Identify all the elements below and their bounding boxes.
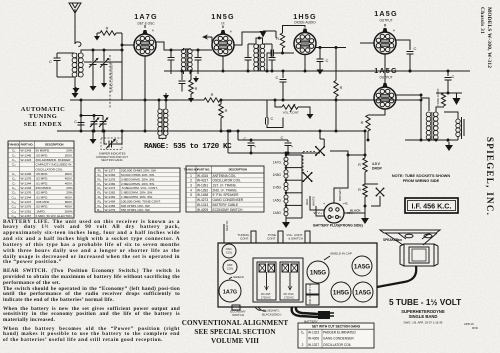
battery new paragraph	[3, 307, 180, 325]
capacitor C2	[78, 123, 85, 126]
svg-text:GANG CONDENSER: GANG CONDENSER	[213, 198, 244, 202]
svg-text:W-1345: W-1345	[21, 153, 32, 157]
svg-text:C₁: C₁	[12, 149, 15, 153]
svg-text:W-1373: W-1373	[105, 186, 116, 190]
tube V2 1N5G	[212, 34, 234, 56]
wire switch to filament bus	[320, 131, 324, 147]
wire V5 bottom to R8	[368, 109, 385, 115]
tone control R8b	[436, 92, 462, 94]
svg-text:PART NO.: PART NO.	[21, 143, 34, 147]
svg-text:W-4273: W-4273	[197, 198, 208, 202]
svg-text:20%: 20%	[66, 149, 72, 153]
antenna	[69, 3, 81, 13]
battery cable	[292, 307, 318, 317]
svg-text:C₁₄: C₁₄	[11, 214, 16, 218]
svg-text:C₁₁: C₁₁	[12, 200, 16, 204]
speaker voice coil	[456, 119, 460, 123]
svg-text:1ST. I.F. TRANS.: 1ST. I.F. TRANS.	[213, 184, 237, 188]
vertical wire x81	[80, 100, 82, 131]
svg-text:.05 MFD.: .05 MFD.	[36, 153, 49, 157]
ground at R1 left	[97, 32, 100, 34]
oscillator coil T2	[158, 109, 162, 113]
resistor R1	[100, 31, 116, 35]
volume control shaft	[305, 231, 310, 243]
wire V4 top cap	[384, 24, 386, 27]
svg-text:BATTERY CABLE: BATTERY CABLE	[213, 203, 239, 207]
wire R1 to grid line	[116, 33, 122, 100]
battery life paragraph	[3, 220, 180, 267]
svg-text:W-1376: W-1376	[21, 191, 32, 195]
gang trimmer capacitor C(ant)	[92, 50, 94, 61]
wire V1 top cap	[144, 25, 146, 28]
svg-text:ECONOMY SWITCH: ECONOMY SWITCH	[213, 208, 244, 212]
ground stub below cap	[195, 76, 197, 78]
speaker flange	[380, 230, 440, 233]
volume control arrow	[290, 104, 295, 112]
antenna coil T1	[72, 53, 77, 58]
capacitor across 1st IF primary	[170, 50, 172, 57]
ground below oscillator	[162, 138, 164, 139]
svg-text:R₁₀: R₁₀	[97, 208, 102, 212]
wire osc coil bottom	[159, 135, 166, 138]
svg-text:400V.: 400V.	[65, 205, 73, 209]
svg-text:400V.: 400V.	[65, 195, 73, 199]
svg-text:TRANS NO.: TRANS NO.	[184, 168, 199, 172]
label conventional alignment	[180, 319, 290, 347]
IF transformer cans	[306, 284, 319, 294]
svg-text:W-1343: W-1343	[21, 186, 32, 190]
svg-text:W-1392: W-1392	[197, 188, 208, 192]
svg-text:5" P.M. SPEAKER: 5" P.M. SPEAKER	[213, 193, 240, 197]
svg-text:DESCRIPTION: DESCRIPTION	[45, 143, 63, 147]
gang condenser in chassis	[253, 258, 303, 302]
rear switch paragraph	[3, 269, 180, 287]
svg-text:W-1382: W-1382	[105, 182, 116, 186]
bus wire y131	[57, 130, 365, 132]
capacitor right of 2nd IF	[271, 44, 273, 57]
economy paragraph	[3, 287, 180, 305]
gang condenser dashed link label	[109, 55, 111, 108]
parts table resistors R1-R10	[95, 168, 180, 212]
label automatic tuning	[19, 106, 67, 130]
svg-text:CAPACITY INCLUDED IN: CAPACITY INCLUDED IN	[36, 163, 72, 167]
wire R5 bottom to diode	[283, 48, 295, 53]
svg-text:250 MMFD.: 250 MMFD.	[36, 186, 52, 190]
svg-text:1 MEGOHM. 20% .5W.: 1 MEGOHM. 20% .5W.	[121, 191, 153, 195]
svg-text:W-1343: W-1343	[21, 149, 32, 153]
antenna leads	[255, 307, 261, 310]
svg-text:.02 MFD.: .02 MFD.	[36, 205, 49, 209]
capacitor C11	[396, 40, 410, 50]
svg-text:.02 MFD.: .02 MFD.	[36, 177, 49, 181]
svg-text:C₁₂: C₁₂	[12, 205, 17, 209]
svg-text:5: 5	[190, 193, 192, 197]
svg-text:600V.: 600V.	[65, 200, 73, 204]
svg-text:20%: 20%	[66, 186, 72, 190]
svg-text:200,000 OHMS 20% .5W.: 200,000 OHMS 20% .5W.	[121, 169, 157, 173]
wire V4 grid left	[360, 42, 374, 44]
tube V3 location 1H5G	[331, 282, 351, 302]
tube V4 location 1A5G	[352, 256, 372, 276]
wire V5 plate to output transformer	[396, 95, 429, 111]
svg-text:W-4306: W-4306	[308, 337, 319, 341]
svg-text:W-1323: W-1323	[21, 158, 32, 162]
volume control R6	[275, 100, 282, 107]
wire brown riser	[334, 155, 348, 194]
capacitor C5 and resistor R3	[181, 71, 183, 80]
padder capacitor C3	[104, 131, 107, 144]
resistor R8	[366, 115, 370, 131]
antenna coil can	[223, 260, 237, 274]
wire x365 battery feed	[364, 131, 366, 158]
svg-text:.05 MFD.: .05 MFD.	[36, 172, 49, 176]
svg-text:W-1363: W-1363	[105, 173, 116, 177]
wire V3 top cap with R5	[283, 26, 306, 34]
svg-text:.02 MFD.: .02 MFD.	[36, 191, 49, 195]
capacitor left of 2nd IF	[247, 44, 249, 57]
svg-text:C₇: C₇	[12, 181, 15, 185]
electrolytic C13	[238, 131, 251, 142]
svg-text:R₁: R₁	[98, 169, 101, 173]
chassis outline	[218, 243, 377, 307]
svg-text:C₁₃: C₁₃	[11, 209, 16, 213]
svg-text:ANTENNA COIL: ANTENNA COIL	[213, 174, 237, 178]
economy switch location	[232, 305, 240, 310]
switch contact at R10	[365, 183, 378, 185]
wire stubs entering chassis	[223, 224, 225, 243]
tube V1 1A7G	[134, 34, 156, 56]
svg-text:6 MFD. 50 WV. ELECTRO.: 6 MFD. 50 WV. ELECTRO.	[36, 214, 73, 218]
capacitor C8 grid	[274, 52, 283, 54]
ground below trimmer 2	[103, 80, 105, 83]
svg-text:50,000 OHMS 10% .5W.: 50,000 OHMS 10% .5W.	[121, 173, 155, 177]
svg-text:W-1376: W-1376	[21, 205, 32, 209]
ground below filament chain	[285, 218, 287, 219]
svg-text:2ND. I.F. TRANS.: 2ND. I.F. TRANS.	[213, 188, 238, 192]
svg-text:2: 2	[190, 179, 192, 183]
arrow at 2nd IF top	[263, 31, 276, 38]
svg-text:SET WITH CUT SECTION GANG: SET WITH CUT SECTION GANG	[312, 325, 361, 329]
wire R9 to R10	[364, 172, 366, 184]
svg-text:2: 2	[302, 343, 304, 347]
ground below battery divider	[364, 215, 366, 218]
tube V3 1H5G	[294, 33, 316, 55]
ground below antenna coil	[74, 77, 76, 89]
tube V5 1A5G output	[374, 87, 396, 109]
svg-text:4: 4	[190, 188, 192, 192]
tuning control shaft	[251, 231, 256, 243]
svg-text:W-4317: W-4317	[197, 179, 208, 183]
IF frequency box	[405, 198, 458, 213]
svg-text:W-1313: W-1313	[197, 203, 208, 207]
capacitor C9	[319, 48, 321, 59]
speaker cable	[377, 266, 416, 287]
parts table transformers and hardware	[186, 166, 264, 212]
svg-text:R₇: R₇	[98, 195, 101, 199]
svg-text:W-1376: W-1376	[21, 177, 32, 181]
svg-text:.5 MEGOHM. VOL. CONT.: .5 MEGOHM. VOL. CONT.	[121, 186, 158, 190]
resistor R10	[363, 184, 367, 197]
wire R10 bottom to ground	[364, 197, 366, 215]
svg-text:100,000-OHM. TONE CONT.: 100,000-OHM. TONE CONT.	[121, 199, 161, 203]
svg-text:DESCRIPTION: DESCRIPTION	[229, 168, 247, 172]
svg-text:400V.: 400V.	[65, 181, 73, 185]
svg-text:W-1362: W-1362	[105, 195, 116, 199]
filament chain of five tubes	[285, 153, 287, 155]
2nd IF transformer T4	[254, 44, 259, 49]
tone control shaft	[278, 231, 283, 243]
svg-text:W-4316: W-4316	[197, 174, 208, 178]
svg-text:W-1345: W-1345	[21, 172, 32, 176]
main bus wire y71	[164, 70, 470, 72]
capacitor C7	[282, 71, 284, 78]
resistor R7	[335, 48, 337, 81]
battery plug	[324, 203, 344, 223]
wire battery top loop	[330, 151, 365, 155]
svg-text:1 MEGOHM. 20% .5W.: 1 MEGOHM. 20% .5W.	[121, 195, 153, 199]
speaker magnet and output transformer	[404, 244, 434, 266]
svg-text:W-1391: W-1391	[197, 184, 208, 188]
resistor R9	[363, 158, 367, 172]
svg-text:400V.: 400V.	[65, 177, 73, 181]
vertical label spiegel	[485, 137, 495, 216]
wire osc coil top	[159, 100, 166, 109]
capacitor C12	[447, 71, 449, 76]
svg-text:W-1377: W-1377	[105, 169, 116, 173]
svg-text:W-1347: W-1347	[21, 200, 32, 204]
svg-text:W-1344: W-1344	[21, 181, 32, 185]
svg-text:W-1351: W-1351	[21, 209, 32, 213]
jumper dashed box	[101, 138, 122, 150]
parts table capacitors C1-C14	[8, 141, 74, 218]
capacitor across 1st IF secondary	[197, 50, 199, 57]
svg-text:2 MEGOHMS. 20% .5W.: 2 MEGOHMS. 20% .5W.	[121, 182, 155, 186]
wire V4 bottom to V5 top cap	[384, 54, 386, 85]
tube V1 location 1A7G	[219, 280, 241, 302]
resistor R2	[220, 100, 222, 104]
wire V1 plate to 1st IF	[156, 42, 184, 50]
battery plug leads	[310, 194, 365, 216]
svg-text:W-1378: W-1378	[105, 177, 116, 181]
electrolytic C14	[251, 140, 288, 142]
svg-text:20%: 20%	[66, 191, 72, 195]
svg-text:W-1344: W-1344	[21, 195, 32, 199]
resistor R5	[280, 33, 284, 48]
svg-text:PART NO.: PART NO.	[197, 168, 210, 172]
vertical wire x421	[420, 100, 422, 140]
label range 535-1720	[144, 143, 239, 151]
vertical label models	[486, 7, 492, 68]
svg-text:W-1365: W-1365	[105, 204, 116, 208]
svg-text:3: 3	[190, 184, 192, 188]
svg-text:OSCILLATOR COIL: OSCILLATOR COIL	[213, 179, 241, 183]
svg-text:3 MEGOHMS. 20% .5W.: 3 MEGOHMS. 20% .5W.	[121, 177, 155, 181]
svg-text:200V.: 200V.	[65, 172, 73, 176]
resistor R4 inline	[204, 98, 220, 102]
capacitor C6	[282, 99, 284, 101]
ground below output transformer	[447, 140, 449, 142]
wire V2 bottom down	[222, 56, 224, 71]
ground below R3	[190, 96, 192, 98]
svg-text:.01 MFD.: .01 MFD.	[36, 181, 49, 185]
wire V2 top cap	[222, 26, 224, 29]
svg-text:.006 MFD.: .006 MFD.	[36, 200, 51, 204]
tube V4 1A5G output	[374, 32, 396, 54]
svg-text:OSCILLATOR COIL: OSCILLATOR COIL	[323, 343, 351, 347]
svg-text:W-1458: W-1458	[197, 193, 208, 197]
oscillator gang trimmers	[81, 116, 103, 121]
bus wire y153	[228, 152, 320, 154]
svg-text:W-1327: W-1327	[308, 343, 319, 347]
svg-text:GANG CONDENSER: GANG CONDENSER	[323, 337, 354, 341]
svg-text:PADDER ELIMINATED: PADDER ELIMINATED	[323, 331, 357, 335]
economy switch contact 1	[316, 147, 324, 155]
svg-text:360-440MMFD. PADDER: 360-440MMFD. PADDER	[36, 158, 72, 162]
ground arrows row mid	[75, 87, 77, 88]
wire x228 down	[227, 131, 229, 153]
economy switch contact 2	[303, 173, 311, 181]
vertical wire to table area ground	[92, 131, 94, 137]
svg-text:W-1367: W-1367	[21, 214, 32, 218]
svg-text:W-1362: W-1362	[105, 191, 116, 195]
dashed link between switch contacts	[303, 152, 315, 173]
ground arrow tone	[456, 93, 458, 94]
wire V3 plate right	[316, 47, 346, 49]
ground below trimmer	[92, 82, 94, 86]
battery old paragraph	[3, 327, 180, 345]
gang trimmer capacitor 2	[103, 50, 105, 61]
svg-text:W-1379: W-1379	[105, 208, 116, 212]
svg-text:.1MFD.: .1MFD.	[36, 209, 46, 213]
svg-text:C₁₀: C₁₀	[11, 195, 16, 199]
svg-text:900 OHMS 10% .5W.: 900 OHMS 10% .5W.	[121, 204, 151, 208]
tube V2 location 1N5G	[307, 261, 329, 283]
wire V3 bottom	[304, 55, 306, 72]
output transformer T5	[426, 112, 431, 117]
svg-text:200%: 200%	[65, 209, 73, 213]
ground below volume control	[309, 112, 311, 114]
wire V1 cathode down	[144, 56, 146, 131]
svg-text:550 OHMS 10% .5W.: 550 OHMS 10% .5W.	[121, 208, 151, 212]
vertical label chassis	[479, 7, 485, 34]
bus wire y140 right	[405, 139, 458, 141]
svg-text:SYM-BOL: SYM-BOL	[8, 143, 21, 147]
wire V2 plate right	[234, 32, 263, 45]
oscillator coil can	[222, 244, 236, 258]
svg-text:.01 MFD.: .01 MFD.	[36, 195, 49, 199]
svg-text:200V.: 200V.	[65, 153, 73, 157]
1st IF transformer T3	[181, 49, 185, 53]
svg-text:1: 1	[190, 174, 192, 178]
svg-text:50 MMFD.: 50 MMFD.	[36, 149, 51, 153]
wire antenna secondary to grid bus	[81, 50, 122, 62]
svg-text:W-1323: W-1323	[308, 331, 319, 335]
tube V5 location 1A5G	[353, 282, 373, 302]
capacitor C1	[57, 53, 74, 77]
wire transformer secondary top	[436, 107, 444, 112]
AVC arrow to V2 grid	[204, 36, 212, 38]
svg-text:W-1454: W-1454	[105, 199, 116, 203]
main bus wire y100	[70, 99, 421, 101]
svg-text:W-4209: W-4209	[197, 208, 208, 212]
svg-text:OSCILLATOR COIL: OSCILLATOR COIL	[36, 167, 64, 171]
parts table cut section gang	[298, 323, 374, 348]
antenna lead loop	[75, 42, 81, 47]
wire V1 grid left	[122, 44, 134, 46]
